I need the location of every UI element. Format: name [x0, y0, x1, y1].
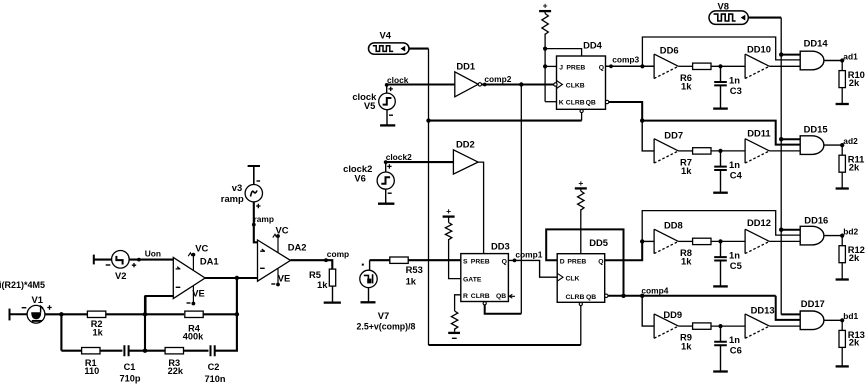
svg-text:Uon: Uon	[145, 249, 161, 259]
ground below R12	[836, 278, 849, 280]
ground below C4	[713, 192, 728, 194]
svg-text:DA1: DA1	[200, 255, 219, 266]
resistor R10	[841, 61, 843, 71]
svg-text:V5: V5	[364, 100, 375, 111]
junction D-loop branch	[621, 294, 625, 298]
svg-text:DD9: DD9	[663, 309, 682, 320]
resistor R1	[82, 348, 100, 354]
capacitor C3	[720, 66, 722, 82]
node bd2	[840, 234, 844, 238]
wire DD10 to DD14	[769, 65, 800, 67]
resistor R7	[693, 148, 711, 154]
wire node up to inverting input	[144, 296, 146, 351]
wire DD9 to R9	[678, 325, 692, 327]
plus mark of V6	[387, 164, 391, 168]
wire V4 output	[409, 48, 429, 50]
svg-text:K: K	[559, 100, 564, 107]
QB stub arrow of DD3	[508, 294, 515, 298]
bubble CLRB of DD3	[483, 302, 486, 305]
ground below V7	[361, 301, 376, 303]
svg-text:GATE: GATE	[463, 277, 482, 284]
wire supply to PREB stub of DD4	[545, 49, 582, 56]
resistor R6	[693, 63, 711, 69]
ground below R5	[324, 301, 341, 303]
feedback loop QB to D of DD5	[546, 229, 623, 295]
wire R12 to ground	[841, 263, 843, 280]
junction C5 node	[718, 239, 722, 243]
wire V1 to node	[45, 313, 87, 315]
wire comp2 down to DD3 CLRB	[520, 85, 522, 314]
AND gate DD17	[800, 311, 824, 330]
wire DD2 output to DD3 PREB	[478, 162, 484, 254]
svg-text:V6: V6	[354, 172, 365, 183]
svg-text:i(R21)*4M5: i(R21)*4M5	[0, 280, 45, 290]
AND gate DD14	[800, 51, 824, 70]
junction C4 node	[718, 149, 722, 153]
wire DA1 inverting input	[146, 296, 174, 314]
node comp1 label anchor	[513, 259, 517, 263]
svg-text:C1: C1	[124, 362, 136, 372]
noninverting input mark of DA2	[260, 249, 265, 251]
wire DD6 to R6	[678, 65, 692, 67]
CLRB stub and bubble of DD4	[580, 109, 583, 112]
svg-text:1k: 1k	[406, 276, 417, 287]
svg-text:ad2: ad2	[843, 136, 858, 146]
ground below R13	[836, 365, 849, 367]
junction at V1 output node	[59, 312, 63, 316]
svg-text:C2: C2	[208, 362, 220, 372]
resistor R8	[693, 238, 711, 244]
ground below C6	[713, 370, 728, 372]
svg-text:PREB: PREB	[567, 259, 586, 266]
svg-text:1n: 1n	[729, 159, 740, 170]
flip-flop DD3	[461, 254, 509, 302]
capacitor C6	[720, 326, 722, 342]
junction C6 node	[718, 324, 722, 328]
wire V4 reset vertical	[428, 49, 430, 345]
wire V7 to R53	[370, 259, 391, 261]
inverting input mark of DA2	[260, 267, 265, 269]
VC power pin of DA2	[277, 236, 279, 253]
source V3 ramp generator	[245, 185, 262, 202]
svg-text:DD14: DD14	[804, 37, 829, 48]
junction row3 node	[640, 239, 644, 243]
svg-text:comp1: comp1	[515, 250, 542, 260]
wire V5 to ground	[386, 110, 388, 126]
svg-text:DD10: DD10	[747, 43, 771, 54]
wire V6 to ground	[385, 189, 387, 204]
wire DD13 to DD17	[769, 325, 800, 327]
wire C4 to ground	[720, 170, 722, 193]
source V1	[27, 305, 45, 323]
resistor R4	[185, 311, 203, 317]
noninverting input mark of DA1	[176, 267, 181, 269]
junction row2 node	[640, 118, 644, 122]
minus mark of V1	[22, 307, 27, 309]
svg-text:VC: VC	[276, 225, 289, 236]
minus mark of V5	[389, 114, 393, 116]
svg-text:CLK: CLK	[566, 275, 580, 282]
svg-text:PREB: PREB	[471, 259, 490, 266]
svg-text:22k: 22k	[168, 366, 184, 376]
svg-text:+: +	[578, 178, 583, 188]
resistor R13	[841, 320, 843, 330]
svg-text:DD16: DD16	[804, 215, 828, 226]
svg-text:CLRB: CLRB	[566, 294, 585, 301]
output bubble of DD1	[478, 83, 481, 86]
buffer DD11	[744, 139, 746, 163]
junction at J pin wire	[543, 64, 547, 68]
wire comp2 from DD1 to DD4 CLKB	[482, 83, 554, 85]
svg-text:710p: 710p	[120, 374, 141, 384]
buffer DD8	[653, 229, 655, 253]
wire R6 to DD10	[711, 65, 745, 67]
ground below V6	[378, 203, 394, 205]
buffer DD9	[653, 314, 655, 338]
resistor R5	[329, 269, 335, 286]
svg-text:VC: VC	[195, 242, 208, 253]
resistor R11	[841, 145, 843, 155]
wire C2 to right corner and up	[215, 278, 237, 351]
svg-text:110: 110	[84, 366, 99, 376]
wire R7 to DD11	[711, 150, 745, 152]
ground below C3	[713, 107, 728, 109]
wire bottom row left segment	[61, 350, 82, 352]
svg-text:Q: Q	[502, 259, 507, 266]
svg-text:comp2: comp2	[484, 74, 511, 84]
svg-text:DD6: DD6	[660, 44, 679, 55]
wire comp3 from DD4 Q to DD6	[606, 65, 655, 67]
pulldown resistor and battery at DD3 R pin	[455, 295, 461, 311]
node ad1	[840, 58, 844, 62]
wire C1 to node	[129, 350, 165, 352]
ground below C5	[713, 285, 728, 287]
svg-text:QB: QB	[496, 293, 506, 300]
source V2	[112, 250, 130, 268]
wire V4 reset line to DD5 CLRB	[429, 344, 581, 346]
ground below V5	[380, 124, 395, 126]
minus mark of V6	[388, 192, 392, 194]
svg-text:1k: 1k	[681, 340, 692, 351]
source V5 clock	[386, 85, 388, 94]
VE power pin of DA1	[192, 286, 194, 304]
wire port to V2	[94, 259, 112, 261]
AND gate DD16	[800, 226, 824, 245]
svg-text:DD8: DD8	[664, 220, 683, 231]
svg-text:DD2: DD2	[456, 138, 475, 149]
buffer DD1	[455, 72, 478, 97]
wire CLRB line of DD4 to V4 vertical	[429, 120, 582, 122]
svg-text:DD1: DD1	[456, 61, 475, 72]
svg-text:PREB: PREB	[566, 65, 585, 72]
svg-text:C5: C5	[730, 260, 742, 271]
source V7	[369, 260, 371, 270]
wire R9 to DD13	[711, 325, 745, 327]
node ad2	[840, 143, 844, 147]
minus mark of V3	[257, 180, 261, 182]
wire V8 strobe vertical	[780, 18, 782, 315]
wire R4 to right vertical	[203, 313, 237, 315]
wire C5 to ground	[720, 261, 722, 287]
port terminal at V3 top	[248, 165, 260, 167]
svg-text:2k: 2k	[849, 337, 860, 348]
wire DD11 to DD15	[769, 150, 800, 152]
stimulus source V4	[369, 43, 410, 54]
wire DD17 output to bd1	[824, 319, 842, 321]
svg-text:R53: R53	[406, 264, 423, 275]
svg-text:DD12: DD12	[747, 217, 771, 228]
node comp4 label anchor	[640, 294, 644, 298]
junction R4 right node	[235, 312, 239, 316]
strobe branch into DD16	[779, 228, 783, 232]
capacitor C2	[211, 345, 215, 356]
AND gate DD15	[800, 136, 824, 155]
svg-text:clock2: clock2	[386, 152, 412, 162]
svg-text:V2: V2	[115, 270, 126, 281]
inverting input mark of DA1	[176, 286, 181, 288]
wire R5 to ground	[332, 286, 334, 302]
svg-text:ad1: ad1	[843, 51, 858, 61]
svg-text:R: R	[463, 293, 468, 300]
wire R8 to DD12	[711, 240, 745, 242]
wire row3 node to DD8 input	[642, 240, 654, 242]
resistor R3	[165, 348, 183, 354]
wire ramp from V3 to DA2	[254, 202, 258, 242]
wire DA1 output	[205, 277, 257, 279]
wire DA2 output comp	[291, 260, 333, 269]
svg-text:S: S	[463, 259, 468, 266]
svg-text:+: +	[446, 206, 451, 216]
svg-text:C3: C3	[730, 85, 742, 96]
strobe branch into DD15	[779, 137, 783, 141]
wire comp3 loop-over to DD14	[642, 37, 800, 66]
svg-text:1k: 1k	[92, 327, 103, 337]
wire C6 to ground	[720, 345, 722, 371]
wire clock from V5 to DD1	[387, 83, 455, 85]
resistor R12	[841, 236, 843, 246]
svg-text:C6: C6	[730, 345, 742, 356]
svg-text:DD11: DD11	[747, 128, 770, 139]
port terminal at V1 input	[9, 309, 11, 321]
svg-text:bd1: bd1	[843, 311, 858, 321]
wire Uon from V2 to DA1	[129, 259, 173, 261]
wire V8 output	[748, 17, 781, 19]
svg-text:V1: V1	[32, 294, 43, 305]
svg-text:DD4: DD4	[583, 39, 603, 50]
minus mark of V2	[106, 264, 111, 266]
node ramp label anchor	[252, 223, 256, 227]
plus mark of V5	[389, 87, 393, 91]
svg-text:CLKB: CLKB	[566, 82, 585, 89]
ground below R11	[836, 187, 849, 189]
svg-text:bd2: bd2	[843, 226, 858, 236]
svg-text:400k: 400k	[183, 332, 204, 342]
svg-text:710n: 710n	[205, 374, 226, 384]
wire R1 to C1	[100, 350, 123, 352]
wire comp4 down to DD9 input	[642, 296, 654, 326]
svg-text:1k: 1k	[681, 165, 692, 176]
svg-text:D: D	[560, 259, 565, 266]
wire R13 to ground	[841, 347, 843, 366]
buffer DD10	[744, 54, 746, 78]
wire DD16 output to bd2	[824, 235, 842, 237]
svg-text:DD5: DD5	[589, 237, 608, 248]
resistor R9	[693, 323, 711, 329]
stimulus source V8	[709, 11, 748, 25]
svg-text:1k: 1k	[317, 279, 328, 290]
svg-text:1n: 1n	[729, 249, 740, 260]
svg-text:2k: 2k	[849, 162, 860, 173]
junction comp3 loop branch	[640, 64, 644, 68]
VC power pin of DA1	[192, 255, 194, 271]
svg-text:VE: VE	[278, 272, 291, 283]
svg-text:ramp: ramp	[221, 193, 244, 204]
svg-text:1k: 1k	[681, 81, 692, 92]
junction DA1 output node	[235, 276, 239, 280]
buffer DD6	[653, 54, 655, 78]
strobe branch into DD17	[781, 313, 800, 315]
junction V4 line with DD4 CLRB line	[426, 118, 430, 122]
CLRB stub and bubble of DD5	[579, 302, 582, 305]
wire to J pin	[545, 65, 556, 67]
junction at supply node	[543, 47, 547, 51]
svg-text:QB: QB	[586, 294, 596, 301]
junction C3 node	[718, 64, 722, 68]
svg-text:DD17: DD17	[801, 298, 825, 309]
wire clock2 from V6 to DD2	[386, 161, 454, 163]
junction comp2 branch	[519, 82, 523, 86]
wire R2 to middle node	[106, 313, 184, 315]
svg-text:1k: 1k	[681, 256, 692, 267]
clock triangle marker of DD4	[557, 81, 563, 89]
CLKB input bubble of DD4	[554, 83, 557, 86]
wire C3 to ground	[720, 85, 722, 108]
plus mark of V1	[47, 305, 51, 309]
wire DD5 Q to row3 node	[605, 241, 643, 260]
svg-text:VE: VE	[192, 287, 205, 298]
svg-text:J: J	[559, 65, 563, 72]
buffer DD12	[744, 229, 746, 253]
svg-text:ramp: ramp	[254, 214, 274, 224]
buffer DD7	[653, 139, 655, 163]
ground below R10	[836, 103, 849, 105]
wire row3 loop-over to DD16	[642, 211, 800, 242]
clock triangle marker of DD5	[557, 273, 563, 281]
node clock label anchor	[385, 83, 389, 87]
svg-text:Q: Q	[599, 65, 604, 72]
wire DD8 to R8	[678, 240, 692, 242]
wire comp4 from DD5 QB	[608, 295, 776, 297]
op-amp DA1	[173, 258, 205, 299]
junction bottom middle node	[143, 349, 147, 353]
strobe branch into DD14	[779, 52, 783, 56]
svg-text:DD7: DD7	[664, 129, 683, 140]
node Uon	[137, 258, 141, 262]
wire comp4 loop-over to DD17	[776, 296, 801, 320]
svg-text:V8: V8	[718, 0, 729, 11]
node comp label anchor	[324, 258, 328, 262]
svg-text:comp: comp	[327, 249, 349, 259]
plus mark of V2	[132, 263, 136, 267]
wire DD12 to DD16	[769, 240, 800, 242]
svg-text:CLRB: CLRB	[471, 293, 490, 300]
wire row2 loop-over to DD15	[642, 121, 800, 145]
wire port to V1	[10, 313, 28, 315]
wire comp1 from DD3 Q to DD5 CLK	[508, 260, 557, 277]
wire R53 to DD3 S input	[408, 259, 461, 261]
svg-text:V4: V4	[380, 29, 392, 40]
svg-text:2.5+v(comp)/8: 2.5+v(comp)/8	[357, 321, 416, 331]
svg-text:Q: Q	[598, 259, 603, 266]
svg-text:1n: 1n	[729, 74, 740, 85]
svg-text:DA2: DA2	[288, 242, 307, 253]
wire to K pin	[545, 101, 556, 103]
buffer DD13	[744, 314, 746, 338]
node bd1	[840, 318, 844, 322]
flip-flop DD5	[557, 254, 605, 303]
svg-text:QB: QB	[586, 100, 596, 107]
svg-text:2k: 2k	[849, 77, 860, 88]
wire DD7 to R7	[678, 150, 692, 152]
wire DD15 output to ad2	[824, 144, 842, 146]
port terminal at V2 input	[93, 255, 95, 265]
svg-text:CLRB: CLRB	[566, 100, 585, 107]
wire supply node to DD4 J and K	[544, 49, 546, 102]
wire V7 to ground	[368, 288, 370, 303]
QB output bubble of DD5	[605, 294, 608, 297]
wire row2 node down to DD7 input	[642, 121, 654, 151]
capacitor C4	[720, 151, 722, 167]
resistor R2	[87, 311, 105, 317]
capacitor C5	[720, 241, 722, 257]
wire DD14 output to ad1	[824, 60, 842, 62]
junction middle node R2/R4	[143, 312, 147, 316]
svg-text:DD15: DD15	[804, 124, 828, 135]
VE power pin of DA2	[277, 269, 279, 285]
svg-text:comp3: comp3	[612, 55, 639, 65]
wire under DD3 to CLRB stub	[485, 305, 522, 314]
wire R10 to ground	[841, 88, 843, 104]
op-amp DA2	[258, 240, 291, 281]
svg-text:+: +	[543, 1, 548, 11]
node comp2 label anchor	[483, 83, 487, 87]
wire node down to bottom row	[60, 314, 62, 350]
svg-text:DD3: DD3	[491, 241, 510, 252]
svg-text:DD13: DD13	[751, 305, 775, 316]
node clock2 label anchor	[384, 160, 388, 164]
wire R3 to C2	[183, 350, 208, 352]
polarity dot of V7	[362, 264, 364, 266]
QB output bubble of DD4	[605, 100, 608, 103]
svg-text:V7: V7	[378, 310, 389, 321]
wire DD4 QB to row2 node	[609, 102, 642, 121]
svg-text:1n: 1n	[729, 334, 740, 345]
svg-text:v3: v3	[232, 182, 242, 193]
svg-text:2k: 2k	[849, 252, 860, 263]
svg-text:comp4: comp4	[641, 285, 668, 295]
flip-flop DD4	[557, 56, 606, 109]
capacitor C1	[124, 345, 128, 356]
wire R11 to ground	[841, 172, 843, 188]
resistor R53	[390, 257, 408, 263]
svg-text:C4: C4	[730, 170, 743, 181]
buffer DD2	[453, 150, 478, 174]
node comp3 label anchor	[609, 64, 613, 68]
source V6 clock2	[385, 162, 387, 172]
plus mark of V3	[256, 204, 260, 208]
